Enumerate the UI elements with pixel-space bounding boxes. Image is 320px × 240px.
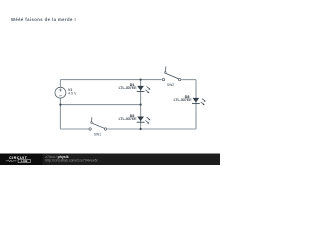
battery V1 4.5V [55,87,77,98]
svg-text:LTL-307EE: LTL-307EE [174,98,193,102]
node junction V1 / middle rail [59,104,61,106]
logo darker panel [0,154,43,166]
svg-text:Wééé faisons de la merde !: Wééé faisons de la merde ! [11,17,76,22]
node junction top rail / middle branch [140,79,142,81]
svg-text:SW1: SW1 [94,132,101,136]
wire bottom rail right segment [107,128,196,130]
svg-text:LAB: LAB [21,159,28,163]
node junction middle rail / middle branch [140,104,142,106]
footer bar [0,154,220,166]
switch SW2 [162,66,181,87]
svg-text:LTL-307EE: LTL-307EE [119,117,138,121]
wire left branch (V1 column) [59,80,61,88]
node junction middle branch / bottom rail [140,128,142,130]
wire middle branch (D1/D2 column) [140,80,142,129]
svg-text:LTL-307EE: LTL-307EE [119,86,138,90]
LED D3 LTL-307EE [174,95,206,105]
wire bottom rail left segment [60,128,88,130]
wire top rail left segment [60,79,161,81]
svg-text:SW2: SW2 [167,83,174,87]
svg-text:http://circuitlab.com/c/ze794x: http://circuitlab.com/c/ze794xvw5/ [45,159,97,163]
LED D2 LTL-307EE [119,114,151,124]
wire top rail right segment [181,79,196,81]
switch SW1 [89,117,107,136]
wire middle rail [60,104,140,106]
CircuitLab logo [6,156,31,163]
svg-text:4.5 V: 4.5 V [68,91,77,95]
wire right branch (D3 column) [195,80,197,129]
LED D1 LTL-307EE [119,83,151,93]
